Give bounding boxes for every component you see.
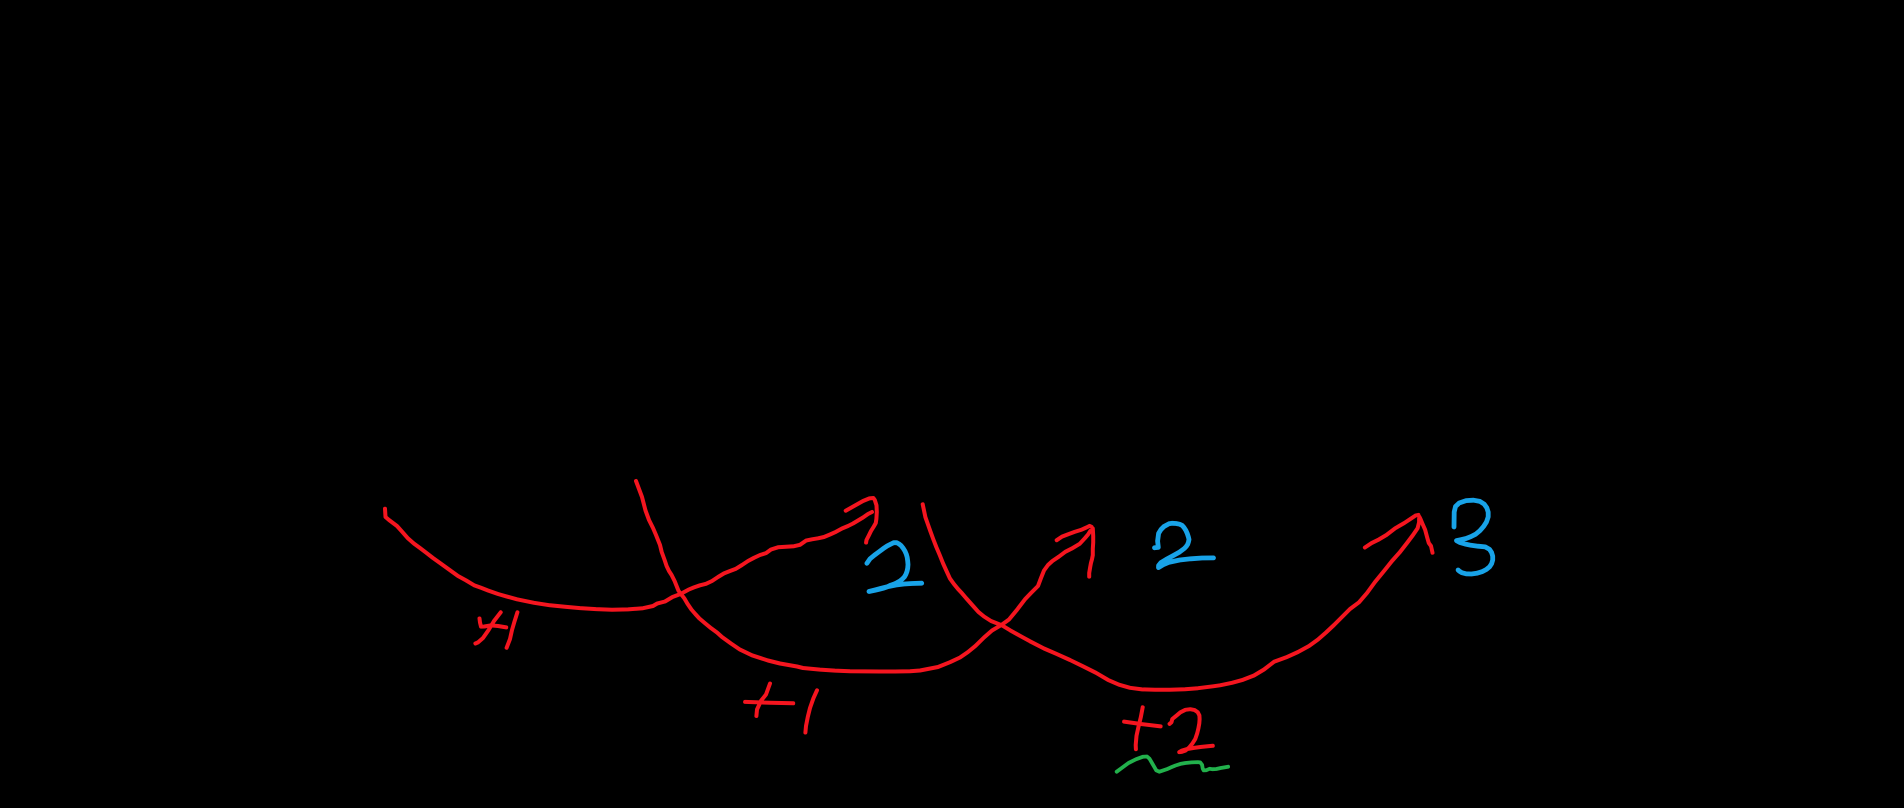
arrowhead of jump 3 (barb)	[1365, 515, 1419, 548]
node value 2 (blue digit after jump 2)	[1155, 523, 1214, 567]
label +1 under jump 2 : digit 1	[805, 690, 817, 732]
label +2 under jump 3 : digit 2	[1170, 709, 1213, 752]
label +1 under jump 2 : plus vertical stroke	[756, 684, 770, 717]
label +1 under jump 1 : plus horizontal-check stroke	[480, 619, 507, 628]
arrowhead of jump 2 (descender)	[1089, 529, 1093, 577]
wire arc jump 1 (red curve from 0 to 1)	[385, 509, 872, 610]
label +2 under jump 3 : plus vertical stroke	[1136, 707, 1143, 749]
label +1 under jump 1 : plus diagonal stroke	[475, 612, 500, 643]
node value 2 (blue digit after jump 1)	[867, 543, 922, 592]
wire arc jump 3 (red curve from 2 to 3)	[923, 504, 1419, 690]
label +2 under jump 3 : plus horizontal stroke	[1124, 722, 1161, 727]
wire arc jump 2 (red curve from 1 to 2)	[636, 481, 1090, 672]
arrowhead of jump 2 (barb)	[1057, 526, 1092, 540]
node value 3 (blue digit after jump 3)	[1454, 500, 1493, 574]
green underline squiggle below +2	[1117, 757, 1228, 772]
label +1 under jump 2 : plus horizontal stroke	[745, 702, 793, 703]
label +1 under jump 1 : digit 1	[507, 612, 518, 648]
arrowhead of jump 3 (descender)	[1420, 517, 1433, 553]
arrowhead of jump 1	[846, 498, 877, 543]
